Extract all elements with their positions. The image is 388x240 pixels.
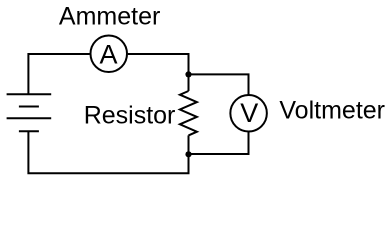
svg-text:Resistor: Resistor — [84, 101, 176, 129]
wire: resistor bottom to bottom node — [188, 135, 190, 154]
battery B1 — [7, 94, 52, 131]
voltmeter V1 — [230, 95, 267, 132]
wire: voltmeter top branch from node to voltmeter top — [189, 74, 249, 94]
svg-text:V: V — [240, 98, 258, 128]
wire: bottom node to bottom-right corner, bottom wire, up to battery negative — [28, 131, 188, 173]
wire: battery positive to top-left corner to ammeter left — [28, 54, 89, 94]
svg-text:A: A — [99, 39, 117, 69]
ammeter A1 — [91, 36, 128, 73]
svg-text:Ammeter: Ammeter — [59, 2, 160, 30]
node: top junction dot — [185, 71, 191, 77]
node: bottom junction dot — [185, 151, 191, 157]
svg-text:Voltmeter: Voltmeter — [279, 97, 385, 125]
resistor R1 — [180, 91, 197, 135]
wire: ammeter right to top-right corner down to resistor top — [128, 54, 189, 91]
wire: voltmeter bottom branch from node to voltmeter bottom — [189, 132, 249, 154]
